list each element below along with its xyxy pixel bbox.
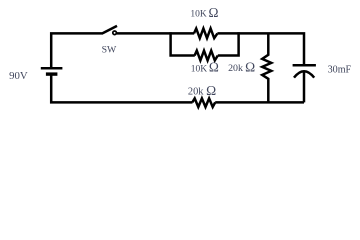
wire bottom right segment [215,101,304,104]
svg-text:10KΩ: 10KΩ [190,5,218,20]
capacitor C1 curved plate [294,71,314,77]
svg-text:20kΩ: 20kΩ [188,83,216,98]
svg-text:90V: 90V [9,70,28,82]
svg-text:30mF: 30mF [328,65,352,76]
battery B1 long plate [41,67,63,70]
wire bottom left segment [51,75,192,102]
battery B1 short plate [46,72,58,75]
resistor R3 20kΩ vertical with leads [262,33,271,102]
wire bottom branch right and right junction [218,32,239,55]
resistor R1 10KΩ top branch zigzag [194,29,217,39]
svg-text:20kΩ: 20kΩ [228,59,255,74]
switch SW contact dot [113,31,117,35]
resistor R2 10KΩ bottom branch zigzag [195,51,218,61]
switch SW blade [103,26,117,33]
wire top branch right to capacitor corner [217,33,304,64]
capacitor C1 flat plate [293,64,316,67]
svg-text:10KΩ: 10KΩ [191,60,219,75]
capacitor C1 bottom lead [303,71,306,102]
resistor R4 20kΩ bottom zigzag [192,98,215,107]
svg-text:SW: SW [102,45,117,56]
wire switch to parallel block [116,32,194,35]
wire top-left segment and left vertical to battery [51,33,103,67]
wire parallel block left junction and bottom branch left [171,32,195,55]
